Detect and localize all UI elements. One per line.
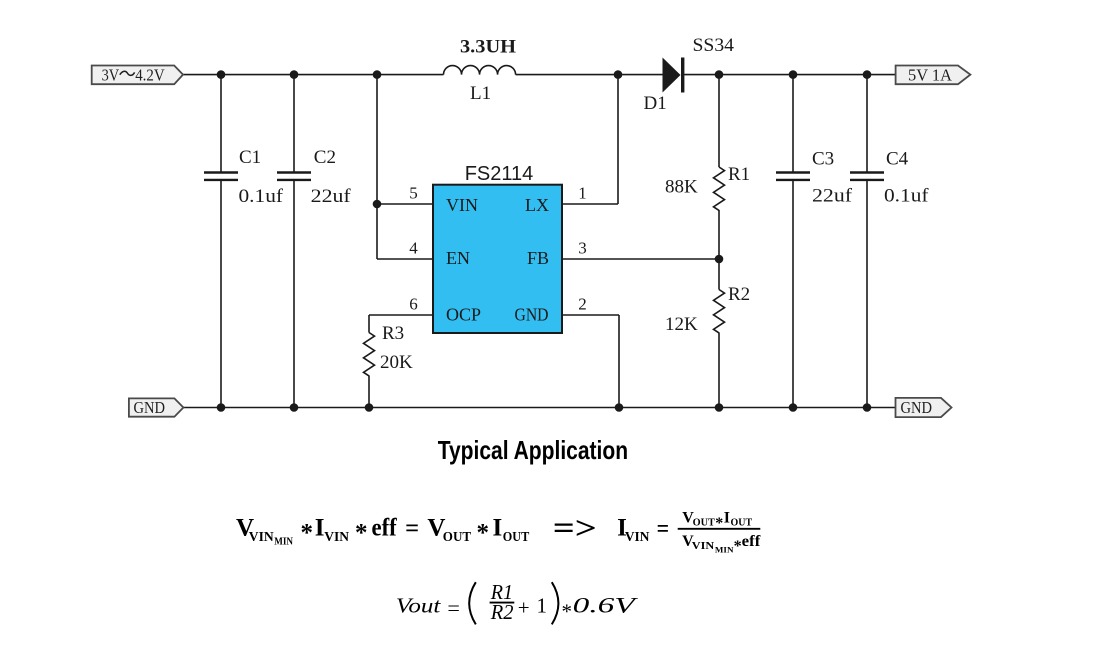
svg-text:12K: 12K <box>665 314 698 335</box>
svg-text:C4: C4 <box>886 149 909 170</box>
svg-text:VIN: VIN <box>625 530 650 545</box>
svg-text:R3: R3 <box>382 323 404 344</box>
svg-text:MIN: MIN <box>274 536 293 548</box>
svg-text:*: * <box>301 520 314 547</box>
svg-text:22uf: 22uf <box>311 186 352 207</box>
svg-text:I: I <box>493 515 503 542</box>
svg-text:VIN: VIN <box>446 195 478 215</box>
svg-text:OUT: OUT <box>693 517 716 529</box>
svg-text:OUT: OUT <box>731 517 753 529</box>
svg-text:VIN: VIN <box>692 540 714 552</box>
svg-text:+: + <box>518 596 530 620</box>
svg-text:R2: R2 <box>728 284 750 305</box>
svg-text:OCP: OCP <box>446 305 481 325</box>
svg-text:SS34: SS34 <box>693 35 735 56</box>
svg-text:*: * <box>562 600 573 624</box>
svg-text:22uf: 22uf <box>812 186 853 207</box>
svg-text:3V: 3V <box>102 65 120 84</box>
svg-text:*: * <box>355 520 368 547</box>
svg-text:=: = <box>405 515 419 542</box>
svg-text:EN: EN <box>446 248 470 268</box>
svg-text:eff: eff <box>372 515 398 542</box>
svg-text:eff: eff <box>742 533 761 550</box>
svg-text:=>: => <box>553 509 597 545</box>
svg-text:0.1uf: 0.1uf <box>239 186 284 207</box>
svg-text:20K: 20K <box>380 352 413 373</box>
svg-text:GND: GND <box>515 305 549 325</box>
svg-text:0.1uf: 0.1uf <box>884 186 929 207</box>
svg-text:OUT: OUT <box>503 530 530 545</box>
svg-text:LX: LX <box>525 195 549 215</box>
svg-text:=: = <box>657 516 670 543</box>
svg-text:OUT: OUT <box>443 530 472 545</box>
svg-text:2: 2 <box>578 295 587 314</box>
svg-text:Typical Application: Typical Application <box>438 435 628 465</box>
svg-text:3.3UH: 3.3UH <box>460 37 516 58</box>
svg-text:1: 1 <box>578 184 587 203</box>
svg-text:D1: D1 <box>644 93 667 114</box>
svg-text:VIN: VIN <box>324 530 349 545</box>
svg-text:I: I <box>724 510 730 527</box>
svg-text:0.6V: 0.6V <box>573 593 639 618</box>
svg-text:5V 1A: 5V 1A <box>908 65 952 84</box>
svg-text:I: I <box>315 515 325 542</box>
svg-text:VIN: VIN <box>249 530 274 545</box>
svg-text:FS2114: FS2114 <box>465 163 534 185</box>
svg-text:L1: L1 <box>470 83 491 104</box>
svg-text:=: = <box>447 596 460 620</box>
svg-text:88K: 88K <box>665 177 698 198</box>
svg-text:MIN: MIN <box>715 545 735 555</box>
svg-text:C1: C1 <box>239 147 261 168</box>
svg-text:GND: GND <box>901 398 933 417</box>
svg-text:3: 3 <box>578 239 587 258</box>
svg-text:R2: R2 <box>490 600 514 624</box>
svg-text:GND: GND <box>134 398 166 417</box>
svg-text:FB: FB <box>527 248 549 268</box>
svg-text:Vout: Vout <box>396 594 442 618</box>
svg-text:*: * <box>477 520 490 547</box>
svg-text:R1: R1 <box>728 164 750 185</box>
svg-text:C3: C3 <box>812 149 834 170</box>
svg-text:*: * <box>734 538 742 555</box>
svg-text:C2: C2 <box>314 147 336 168</box>
svg-text:5: 5 <box>409 184 418 203</box>
svg-text:4.2V: 4.2V <box>135 65 165 84</box>
svg-text:4: 4 <box>409 239 418 258</box>
svg-text:*: * <box>715 515 723 532</box>
svg-text:6: 6 <box>409 295 418 314</box>
svg-text:1: 1 <box>537 594 548 618</box>
